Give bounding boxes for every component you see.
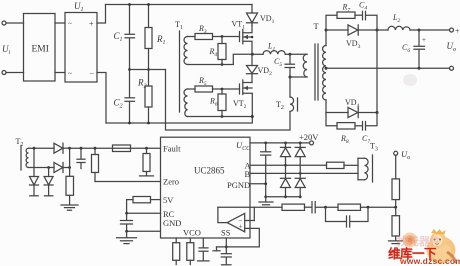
node VD4 cathode junction bbox=[376, 111, 379, 114]
svg-text:VD4: VD4 bbox=[345, 98, 360, 109]
ground sense load bbox=[61, 204, 78, 206]
watermark remnant smudge bbox=[403, 74, 417, 86]
svg-text:T2: T2 bbox=[276, 100, 284, 111]
svg-text:C5: C5 bbox=[274, 57, 282, 68]
svg-text:Zero: Zero bbox=[163, 177, 179, 187]
svg-text:VT2: VT2 bbox=[233, 99, 247, 110]
svg-text:T2: T2 bbox=[16, 137, 24, 148]
node C1 top bbox=[128, 3, 131, 6]
watermark dzsc bbox=[385, 226, 460, 266]
svg-text:~: ~ bbox=[68, 70, 72, 78]
IC U2 UC2865 bbox=[161, 137, 251, 238]
node A line junction bbox=[284, 164, 287, 167]
resistor R8 bbox=[337, 123, 355, 129]
node R3 R4 junction bbox=[221, 35, 224, 38]
inductor L2 bbox=[377, 29, 388, 31]
wire node A to transformer T primary top bbox=[290, 53, 307, 55]
wire T primary bottom to node B bbox=[290, 76, 307, 78]
svg-text:+: + bbox=[422, 36, 426, 44]
resistor compensation 1 bbox=[282, 204, 305, 210]
transformer T core bbox=[314, 44, 316, 100]
node T secondary top bbox=[325, 29, 328, 32]
wire RC pin bbox=[127, 212, 161, 214]
output minus terminal bbox=[450, 66, 454, 70]
node T secondary center tap bbox=[325, 67, 328, 70]
node diode A lower bottom bbox=[284, 195, 287, 198]
svg-text:GND: GND bbox=[163, 218, 181, 228]
clamp diode A upper bbox=[285, 143, 287, 147]
capacitor C1 bbox=[129, 5, 131, 34]
wire A output bbox=[250, 164, 327, 166]
output plus terminal bbox=[450, 28, 454, 32]
wire center tap to output minus terminal bbox=[326, 67, 450, 69]
wire VD3 node down to VD4 node bbox=[376, 30, 378, 113]
snubber loop R8 C7 bbox=[326, 113, 337, 126]
wire inverting input bbox=[245, 220, 255, 222]
node C1 bottom bbox=[128, 68, 131, 71]
wire Zero pin bbox=[95, 181, 161, 183]
transformer T1 core bbox=[179, 31, 181, 112]
resistor R7 bbox=[337, 12, 355, 18]
wire T1 upper winding top to R3 bbox=[188, 36, 196, 38]
svg-text:VD2: VD2 bbox=[258, 66, 273, 77]
svg-text:+: + bbox=[89, 20, 94, 29]
wire joining sense diodes bbox=[69, 148, 71, 176]
wire top rail bbox=[106, 4, 253, 6]
svg-text:UCC: UCC bbox=[236, 140, 251, 152]
transformer T secondary winding bbox=[325, 30, 327, 46]
node L2 output bbox=[418, 29, 421, 32]
transformer T2 primary (current sense) bbox=[289, 77, 291, 97]
wire capacitor midpoint to T2 primary return bbox=[166, 70, 291, 131]
wire Fault rail bbox=[70, 147, 161, 149]
svg-text:~: ~ bbox=[68, 20, 72, 28]
node C2 bottom bbox=[128, 122, 131, 125]
svg-text:L2: L2 bbox=[392, 13, 400, 24]
node R1 top bbox=[147, 3, 150, 6]
svg-text:T1: T1 bbox=[175, 20, 183, 31]
wire T1 lower winding top to R5 bbox=[188, 88, 196, 90]
svg-text:R8: R8 bbox=[340, 134, 349, 145]
op-amp error amplifier bbox=[227, 213, 245, 231]
resistor VCO left bbox=[175, 238, 177, 243]
wire clamp bottom rail bbox=[266, 196, 301, 198]
resistor fault series bbox=[113, 145, 131, 152]
clamp diode B lower bbox=[299, 173, 301, 178]
node R4 bottom bbox=[221, 63, 224, 66]
svg-text:C4: C4 bbox=[359, 1, 367, 12]
capacitor fault filter bbox=[80, 147, 83, 150]
clamp diode A lower bbox=[285, 165, 287, 178]
node PGND junction bbox=[264, 182, 267, 185]
snubber loop R7 C4 bbox=[326, 15, 337, 30]
resistor divider upper bbox=[395, 155, 397, 179]
node R6 bottom bbox=[221, 115, 224, 118]
node VD3 cathode junction bbox=[376, 29, 379, 32]
inductor L1 bbox=[252, 53, 263, 55]
resistor compensation 2 bbox=[338, 204, 361, 210]
capacitor Ucc decoupling bbox=[265, 143, 267, 151]
ground fault shunt bbox=[140, 175, 154, 177]
diode VD3 bbox=[326, 29, 348, 31]
sense diode top bbox=[54, 143, 63, 153]
node comp right bbox=[367, 206, 370, 209]
wire C7 to right corner bbox=[366, 113, 377, 126]
node VT2 source junction bbox=[251, 115, 254, 118]
wire noninverting input to SS bbox=[217, 228, 260, 247]
node R5 R6 junction bbox=[221, 88, 224, 91]
wire input bottom to EMI bbox=[6, 72, 24, 74]
wire T1 lower winding bottom to VT2 source bbox=[188, 116, 253, 118]
svg-text:+20V: +20V bbox=[299, 132, 319, 142]
node divider mid bbox=[394, 206, 397, 209]
capacitor RC timing bbox=[126, 213, 128, 220]
wire mid rail bbox=[130, 69, 166, 71]
capacitor C7 bbox=[362, 122, 364, 131]
node R2 bottom bbox=[147, 122, 150, 125]
node SS junction bbox=[225, 246, 228, 249]
wire U1 minus output down bbox=[97, 73, 106, 124]
capacitor compensation series bbox=[311, 202, 313, 213]
resistor 5V to RC bbox=[151, 199, 161, 201]
svg-text:Uo: Uo bbox=[401, 149, 410, 161]
wire GND pin bbox=[127, 230, 161, 232]
wire EMI to U1 top bbox=[55, 22, 65, 24]
watermark url text bbox=[400, 256, 460, 266]
resistor divider lower bbox=[395, 207, 397, 216]
capacitor comp parallel branch bbox=[326, 207, 347, 221]
node Ucc clamp B bbox=[299, 142, 302, 145]
transformer T1 upper winding bbox=[184, 37, 188, 65]
ground GND pin bbox=[126, 231, 128, 237]
wire Ucc line bbox=[250, 142, 310, 144]
wire input top to EMI bbox=[6, 22, 24, 24]
diode VD4 bbox=[326, 112, 348, 114]
resistor fault shunt bbox=[145, 147, 148, 150]
svg-text:EMI: EMI bbox=[32, 45, 49, 55]
svg-text:R1: R1 bbox=[156, 34, 166, 46]
resistor R4 bbox=[221, 37, 223, 44]
wire SS pin bbox=[225, 238, 227, 247]
wire comp bbox=[305, 206, 312, 208]
transformer T2 secondary winding bbox=[26, 148, 28, 167]
watermark weiku text bbox=[388, 243, 436, 262]
wire R7 to C4 bbox=[355, 14, 362, 16]
svg-text:R4: R4 bbox=[209, 47, 218, 58]
node Ucc clamp A bbox=[284, 142, 287, 145]
node RC junction bbox=[125, 212, 128, 215]
svg-text:PGND: PGND bbox=[227, 180, 250, 190]
input terminal top bbox=[2, 21, 6, 25]
svg-text:Ui: Ui bbox=[2, 44, 11, 56]
svg-text:R5: R5 bbox=[198, 76, 207, 87]
wire to output plus terminal bbox=[419, 29, 450, 31]
wire C4 to right corner bbox=[366, 15, 377, 30]
svg-text:−: − bbox=[90, 69, 95, 78]
capacitor C5 bbox=[289, 54, 291, 63]
svg-text:+: + bbox=[455, 27, 460, 36]
svg-text:VCO: VCO bbox=[183, 228, 201, 238]
capacitor VCO bbox=[202, 238, 204, 247]
resistor R2 bbox=[148, 70, 150, 87]
capacitor C4 bbox=[362, 11, 364, 19]
resistor gate drive bbox=[327, 162, 345, 168]
resistor VCO right bbox=[189, 238, 191, 243]
resistor R5 bbox=[195, 86, 213, 92]
wire bottom rail bbox=[106, 117, 252, 124]
node rectified sense top bbox=[68, 147, 71, 150]
ground PGND bbox=[265, 197, 267, 202]
node diode B lower bottom bbox=[299, 195, 302, 198]
node VT1 source junction bbox=[251, 53, 254, 56]
stub SS left ground bbox=[216, 247, 218, 251]
svg-text:C6: C6 bbox=[402, 43, 410, 54]
wire R5 to VT2 gate bbox=[213, 88, 240, 90]
transformer T1 lower winding bbox=[184, 89, 188, 117]
transformer T primary winding bbox=[303, 54, 307, 77]
wire T2 bottom to sense diode bbox=[29, 167, 55, 169]
resistor R6 bbox=[221, 89, 223, 94]
svg-text:T: T bbox=[314, 21, 320, 31]
wire PGND pin bbox=[250, 183, 266, 185]
resistor R1 bbox=[148, 5, 150, 28]
EMI filter block bbox=[24, 14, 56, 82]
svg-text:T3: T3 bbox=[370, 142, 378, 153]
wire T1 upper winding bottom bbox=[188, 54, 253, 64]
clamp diode left bbox=[33, 148, 35, 176]
wire R3 to VT1 gate bbox=[213, 36, 240, 38]
wire R8 to C7 bbox=[355, 125, 362, 127]
svg-text:VD3: VD3 bbox=[346, 39, 361, 50]
sense diode bottom bbox=[54, 163, 63, 173]
watermark ghost text bbox=[397, 233, 441, 249]
wire B output bbox=[250, 172, 358, 174]
node comp mid bbox=[324, 206, 327, 209]
capacitor C6 bbox=[418, 30, 420, 46]
node B line junction bbox=[299, 172, 302, 175]
svg-text:Fault: Fault bbox=[163, 144, 181, 154]
resistor zero divider bbox=[94, 147, 97, 150]
resistor R3 bbox=[195, 34, 213, 40]
diode VD2 bbox=[251, 54, 253, 65]
clamp diode right bbox=[48, 168, 50, 177]
capacitor soft start bbox=[225, 247, 227, 253]
svg-text:VD1: VD1 bbox=[260, 14, 275, 25]
svg-text:U1: U1 bbox=[74, 1, 84, 13]
svg-text:VT1: VT1 bbox=[232, 20, 246, 31]
wire T2 top to sense diode bbox=[29, 147, 55, 149]
svg-text:C2: C2 bbox=[114, 98, 123, 110]
node R1 bottom bbox=[147, 68, 150, 71]
rectifier U1 bbox=[65, 13, 97, 83]
svg-text:UC2865: UC2865 bbox=[194, 166, 225, 176]
terminal Uo feedback bbox=[394, 151, 398, 155]
svg-text:R6: R6 bbox=[209, 97, 218, 108]
capacitor C2 bbox=[129, 70, 131, 98]
transformer T2 secondary core bbox=[20, 146, 22, 171]
wire EMI to U1 bottom bbox=[55, 72, 65, 74]
wire compensation line bbox=[218, 206, 282, 208]
node T2 top clamp junction bbox=[33, 147, 36, 150]
resistor sense load bbox=[66, 176, 74, 195]
input terminal bottom bbox=[2, 71, 6, 75]
clamp diode B upper bbox=[299, 143, 301, 147]
svg-text:C1: C1 bbox=[114, 31, 123, 43]
svg-text:R2: R2 bbox=[137, 78, 147, 90]
diode VD1 bbox=[251, 5, 253, 14]
node GND junction bbox=[125, 230, 128, 233]
node T2 bottom clamp junction bbox=[47, 166, 50, 169]
wire amp output feedback bbox=[218, 207, 227, 222]
node Ucc cap bbox=[264, 142, 267, 145]
wire U1 plus output to top rail bbox=[97, 5, 106, 24]
svg-text:Uo: Uo bbox=[447, 41, 457, 53]
svg-text:+: + bbox=[239, 223, 243, 231]
svg-text:5V: 5V bbox=[163, 195, 174, 205]
node PGND bottom bbox=[264, 195, 267, 198]
terminal +20V bbox=[310, 141, 314, 145]
node rectified sense bottom bbox=[68, 166, 71, 169]
node C6 bottom bbox=[418, 67, 421, 70]
node B below C5 bbox=[289, 76, 292, 79]
node A after L1 bbox=[289, 53, 292, 56]
svg-text:SS: SS bbox=[221, 228, 231, 238]
ground divider bbox=[389, 240, 403, 242]
